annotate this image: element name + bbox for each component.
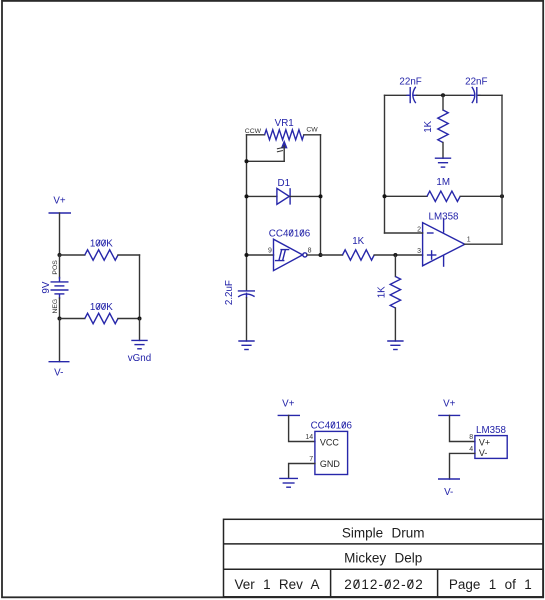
- schmitt inverter U1 CC40106: [245, 228, 323, 270]
- date cell text: [344, 577, 424, 592]
- wire V+ to U2 pin 8: [450, 415, 475, 441]
- svg-text:vGnd: vGnd: [128, 353, 151, 364]
- power flag V+ (battery section): [49, 196, 72, 213]
- svg-text:VR1: VR1: [275, 118, 294, 129]
- wire U1 output to R 1K: [321, 254, 343, 256]
- svg-text:VCC: VCC: [320, 437, 340, 447]
- svg-text:V-: V-: [54, 368, 63, 379]
- wire V+ to U1 pin 14: [289, 415, 315, 441]
- svg-text:Mickey Delp: Mickey Delp: [344, 551, 422, 566]
- battery 9V: [41, 255, 69, 319]
- power flag V- (LM358 supply): [438, 479, 460, 498]
- power flag V- (battery section): [49, 319, 70, 379]
- node D (wiper to CCW tie): [245, 159, 249, 163]
- svg-text:9: 9: [268, 247, 272, 254]
- wire U2 pin 4 to V-: [450, 453, 475, 479]
- title block grid: [224, 519, 544, 597]
- svg-text:CC40106: CC40106: [311, 421, 353, 432]
- svg-text:V+: V+: [443, 398, 456, 409]
- svg-text:22nF: 22nF: [399, 77, 421, 88]
- svg-text:D1: D1: [278, 178, 291, 189]
- svg-text:GND: GND: [320, 459, 341, 469]
- ground (U1 supply): [279, 478, 298, 487]
- svg-text:V+: V+: [282, 398, 295, 409]
- svg-text:1K: 1K: [352, 236, 364, 247]
- wire feedback left rail: [384, 95, 386, 233]
- svg-text:CC40106: CC40106: [269, 228, 311, 239]
- svg-text:1: 1: [467, 237, 471, 244]
- svg-text:3: 3: [417, 248, 421, 255]
- svg-text:POS: POS: [52, 260, 59, 275]
- svg-text:LM358: LM358: [476, 425, 507, 436]
- ground vGnd: [128, 319, 151, 364]
- svg-text:V+: V+: [479, 437, 490, 447]
- resistor R 100K (upper): [60, 239, 140, 261]
- svg-text:22nF: 22nF: [465, 77, 487, 88]
- svg-text:1K: 1K: [423, 120, 434, 132]
- node A (V+ / battery POS junction): [58, 253, 62, 257]
- svg-text:2.2uF: 2.2uF: [224, 280, 235, 305]
- svg-text:4: 4: [469, 446, 473, 453]
- svg-text:100K: 100K: [90, 302, 113, 313]
- svg-text:V-: V-: [479, 448, 488, 458]
- resistor R 1M (feedback): [385, 177, 503, 201]
- wire feedback top rail segment 1: [385, 94, 409, 96]
- svg-text:7: 7: [309, 456, 313, 463]
- power flag V+ (LM358 supply): [438, 398, 460, 415]
- svg-text:14: 14: [305, 434, 313, 441]
- IC power box U2 LM358: [475, 425, 507, 458]
- wire feedback right rail: [501, 95, 503, 244]
- power flag V+ (CC40106 supply): [278, 398, 300, 415]
- resistor R 100K (lower): [60, 302, 140, 323]
- svg-text:8: 8: [469, 434, 473, 441]
- IC power box U1 CC40106: [311, 421, 353, 475]
- wire right rail (VR1 CW / D1 cathode / U1 output): [320, 135, 322, 255]
- wire feedback top rail segment 2: [417, 94, 471, 96]
- svg-text:2: 2: [417, 226, 421, 233]
- svg-text:Ver 1 Rev A: Ver 1 Rev A: [234, 577, 319, 592]
- node E (divider junction at op-amp +): [393, 253, 397, 257]
- node H (feedback right): [500, 194, 504, 198]
- svg-text:V+: V+: [53, 196, 66, 207]
- capacitor C 22nF (right): [465, 77, 487, 104]
- svg-text:CW: CW: [306, 127, 318, 134]
- resistor R 1K (filter leg): [423, 95, 448, 158]
- node C (vGnd junction): [138, 317, 142, 321]
- svg-text:8: 8: [308, 247, 312, 254]
- svg-text:1K: 1K: [376, 286, 387, 298]
- node G (feedback left): [383, 194, 387, 198]
- wire U1 pin 7 to ground: [289, 464, 315, 479]
- ground (below R 1K divider): [387, 341, 403, 350]
- op-amp U2 LM358: [385, 212, 503, 267]
- resistor R 1K (to ground at op-amp +): [376, 255, 400, 341]
- resistor R 1K (series to op-amp): [343, 236, 423, 260]
- diode D1: [245, 178, 323, 205]
- capacitor C 2.2uF: [224, 280, 255, 341]
- wire V+ flag to node A: [59, 213, 61, 255]
- wire right branch down: [139, 255, 141, 319]
- potentiometer VR1: [245, 118, 321, 161]
- capacitor C 22nF (left): [399, 77, 421, 104]
- wire left rail (VR1 CCW / D1 anode / U1 input / C1): [246, 135, 248, 291]
- svg-text:1M: 1M: [436, 177, 450, 188]
- svg-text:V-: V-: [444, 487, 453, 498]
- svg-text:100K: 100K: [90, 239, 113, 250]
- svg-text:NEG: NEG: [52, 299, 59, 314]
- ground (below C 2.2uF): [238, 341, 254, 350]
- svg-text:9V: 9V: [41, 281, 52, 293]
- node B (battery NEG junction): [58, 317, 62, 321]
- ground (filter leg): [435, 158, 451, 167]
- svg-text:Simple Drum: Simple Drum: [342, 526, 425, 541]
- wire feedback top rail segment 3: [479, 94, 503, 96]
- svg-text:Page 1 of 1: Page 1 of 1: [449, 577, 532, 592]
- node F (filter tee): [441, 93, 445, 97]
